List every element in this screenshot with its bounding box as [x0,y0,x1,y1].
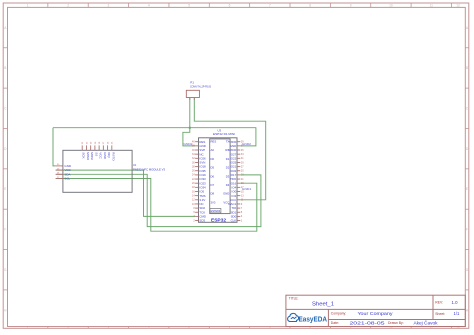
svg-text:D3: D3 [226,174,230,178]
wire: PN532 SDA loop under ESP32 to right pin IO21 [56,174,261,226]
svg-text:TX: TX [226,140,230,144]
PN532 module U1 body [63,150,132,192]
ESP32 right pin IO27 [230,152,244,156]
svg-text:CONN-TH_2P-P5.00: CONN-TH_2P-P5.00 [190,84,211,88]
ESP32 right pin SD1 [231,210,243,214]
svg-text:CLK: CLK [231,219,237,223]
PN532 top pin IRQ [107,141,111,158]
ESP32 left pin IO34 [192,185,206,189]
svg-text:Date:: Date: [331,321,339,325]
svg-text:ESP32: ESP32 [211,217,226,223]
svg-text:D4: D4 [226,183,230,187]
wire: P1 pin2 to ESP32 VCC pin [194,98,265,200]
svg-text:D1: D1 [226,157,230,161]
svg-text:Your Company: Your Company [358,311,394,316]
ESP32 D1 MINI U3 inner module body [210,139,230,214]
ESP32 left pin SD2 [193,206,205,210]
ESP32 left pin NC [192,152,204,156]
svg-text:4: 4 [148,4,150,8]
svg-text:12: 12 [456,4,460,8]
svg-text:2021-08-05: 2021-08-05 [350,321,386,326]
svg-text:B: B [466,66,468,70]
ESP32 right pin CLK [231,219,243,223]
svg-text:2: 2 [67,4,69,8]
svg-text:10: 10 [389,4,393,8]
svg-text:E: E [466,187,468,191]
svg-text:RSTO: RSTO [111,152,115,161]
ESP32 left pin GND [192,144,206,148]
svg-text:6: 6 [229,4,231,8]
ESP32 right pin TXD0 [229,140,244,144]
ESP32 right pin TDO [230,177,244,181]
ESP32 right pin IO25 [230,161,244,165]
PN532 left pin VCC [56,168,72,172]
svg-text:Akej Čavok: Akej Čavok [414,321,439,326]
PN532 top pin SCK [82,141,86,158]
ESP32 left pin SD3 [193,219,205,223]
ESP32 left pin SVN [192,161,205,165]
svg-text:Company:: Company: [331,312,347,316]
ESP32 left pin CMD [193,215,206,219]
svg-text:VCC: VCC [223,200,229,204]
ESP32 right pin IO32 [230,169,244,173]
svg-text:F: F [4,228,6,232]
ESP32 right pin RXD0 [228,148,244,152]
svg-text:D7: D7 [211,183,215,187]
ESP32 right pin IO22 [230,156,244,160]
title block outline [286,295,465,326]
svg-text:F: F [466,228,468,232]
wire: P1 pin1 drop to GND junction and ESP32 left GND pin [183,98,195,146]
wire: GND2 net long horizontal from PN532 GND to ESP32 right GND [53,128,256,146]
ESP32 left pin NC [192,202,204,206]
connector P1 body [186,90,199,97]
frame zone ticks and numbers bottom [27,326,460,330]
ESP32 D1 MINI U3 outer body [199,138,238,223]
connector P1 pin 1 [189,98,191,101]
svg-text:GND1: GND1 [242,187,252,191]
svg-text:SS: SS [94,152,98,156]
EasyEDA logo [288,313,327,323]
svg-text:E: E [4,187,6,191]
svg-text:TITLE:: TITLE: [289,296,299,300]
PN532 top pin VCC [99,141,103,159]
ESP32 right pin SD0 [231,215,243,219]
ESP32 left pin TMS [192,194,206,198]
ESP32 right pin IO21 [230,165,244,169]
ESP32 left pin IO26 [192,156,206,160]
svg-text:5: 5 [188,4,190,8]
svg-text:GND2: GND2 [184,142,194,146]
svg-text:11: 11 [430,4,434,8]
svg-text:1: 1 [27,4,29,8]
PN532 left pin GND [56,164,72,168]
svg-text:PN532 NFC MODULE V3: PN532 NFC MODULE V3 [133,168,165,172]
svg-text:Drawn By:: Drawn By: [388,321,404,325]
svg-text:MOSI: MOSI [90,152,94,160]
svg-text:ESP8266: ESP8266 [211,210,221,213]
svg-text:D8: D8 [211,192,215,196]
svg-text:7: 7 [269,4,271,8]
ESP32 right pin VCC [230,198,244,202]
ESP32 left pin IO18 [192,165,206,169]
PN532 left pin SDA [56,172,71,176]
ESP32 right pin IO4 [232,185,245,189]
ESP32 right pin TDI [232,206,243,210]
svg-text:SCK: SCK [82,152,86,158]
svg-text:ESP32 D1 MINI: ESP32 D1 MINI [213,132,235,136]
svg-text:3: 3 [108,4,110,8]
svg-text:GND: GND [223,192,229,196]
svg-text:EasyEDA: EasyEDA [299,317,328,324]
svg-text:VCC: VCC [99,152,103,159]
PN532 left pin SCL [56,177,71,181]
ESP32 left pin IO19 [192,173,206,177]
wire: PN532 VCC to ESP32 left pin [56,170,195,216]
svg-text:D2: D2 [226,166,230,170]
svg-text:3V3: 3V3 [211,200,216,204]
svg-text:1.0: 1.0 [452,300,459,305]
svg-text:D6: D6 [211,174,215,178]
svg-text:Sheet_1: Sheet_1 [312,301,334,307]
ESP32 left pin IO35 [192,169,206,173]
frame zone ticks and numbers top [27,3,460,8]
svg-text:D5: D5 [211,166,215,170]
svg-text:SCL: SCL [64,177,70,181]
svg-text:A0: A0 [211,148,215,152]
PN532 top pin SS [94,141,98,156]
svg-text:MISO: MISO [86,152,90,160]
frame zone ticks and letters left [3,26,7,313]
svg-text:D0: D0 [211,157,215,161]
svg-text:8: 8 [309,4,311,8]
svg-text:9: 9 [350,4,352,8]
ESP32 right pin GND [230,144,244,148]
PN532 top pin MOSI [90,141,94,160]
ESP32 left pin 3.3V [192,198,205,202]
svg-text:IRQ: IRQ [107,152,111,158]
svg-text:Sheet:: Sheet: [435,312,445,316]
ESP8266 chip sub-block [210,209,221,214]
ESP32 right pin IO2 [232,194,245,198]
ESP32 left pin RES [192,140,205,144]
ESP32 right pin DAC1 [228,202,242,206]
ESP32 right pin IO0 [232,190,245,194]
ESP32 right pin IO17 [230,173,244,177]
ESP32 left pin IO33 [192,177,206,181]
PN532 top pin MISO [86,141,90,161]
connector P1 pin 2 [193,98,195,101]
ESP32 left pin IO5 [192,190,204,194]
svg-text:GND2: GND2 [242,142,252,146]
PN532 top pin RSTO [111,141,115,161]
ESP32 left pin TCK [193,210,205,214]
ESP32 right pin IO16 [230,181,244,185]
wire: PN532 SCL loop under ESP32 to right pin IO22 [56,179,257,232]
svg-text:REV:: REV: [435,301,443,305]
svg-text:SD3: SD3 [199,219,205,223]
wire: GND2 net left drop to PN532 GND pin [53,128,56,166]
svg-text:B: B [4,66,6,70]
PN532 top pin GND [103,141,107,160]
frame zone ticks and letters right [465,26,469,313]
ESP32 left pin SVP [192,148,205,152]
svg-text:GND: GND [103,152,107,160]
ESP32 left pin IO23 [192,181,206,185]
svg-text:U1: U1 [133,163,137,167]
junction dot GND2 [189,127,191,129]
svg-text:1/1: 1/1 [454,311,460,316]
svg-text:RX: RX [225,148,229,152]
svg-text:RES: RES [211,140,217,144]
